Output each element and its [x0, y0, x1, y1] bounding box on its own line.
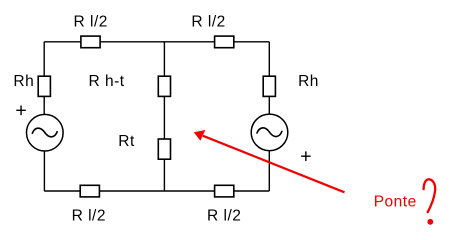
svg-text:Rh: Rh [13, 73, 34, 90]
svg-text:R l/2: R l/2 [207, 208, 241, 225]
svg-text:R l/2: R l/2 [191, 13, 225, 30]
svg-text:R h-t: R h-t [89, 73, 125, 90]
svg-text:R l/2: R l/2 [74, 14, 108, 31]
svg-text:Rt: Rt [118, 133, 135, 150]
svg-text:Rh: Rh [298, 73, 319, 90]
svg-text:R l/2: R l/2 [72, 208, 106, 225]
svg-text:Ponte: Ponte [374, 194, 417, 211]
